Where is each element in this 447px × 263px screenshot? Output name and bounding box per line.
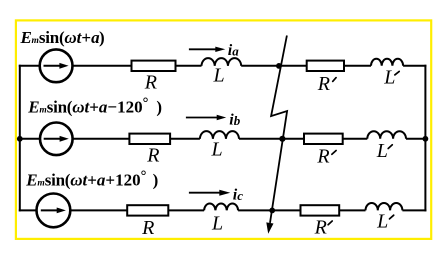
svg-text:R: R xyxy=(317,73,330,95)
svg-text:R: R xyxy=(144,71,157,93)
svg-text:Emsin(ωt+a−120°): Emsin(ωt+a−120°) xyxy=(27,96,162,117)
svg-text:L: L xyxy=(213,64,225,86)
svg-text:L: L xyxy=(211,212,223,234)
svg-text:L: L xyxy=(211,139,223,161)
svg-text:Emsin(ωt+a+120°): Emsin(ωt+a+120°) xyxy=(25,168,158,189)
svg-text:L: L xyxy=(376,210,388,232)
svg-text:L: L xyxy=(376,140,388,162)
svg-text:ia: ia xyxy=(228,42,239,59)
svg-text:R: R xyxy=(314,217,327,239)
svg-text:ib: ib xyxy=(229,111,240,128)
svg-text:L: L xyxy=(383,66,395,88)
svg-text:R: R xyxy=(316,145,329,167)
svg-text:R: R xyxy=(141,217,154,239)
svg-text:ic: ic xyxy=(233,187,243,204)
svg-text:R: R xyxy=(146,145,159,167)
